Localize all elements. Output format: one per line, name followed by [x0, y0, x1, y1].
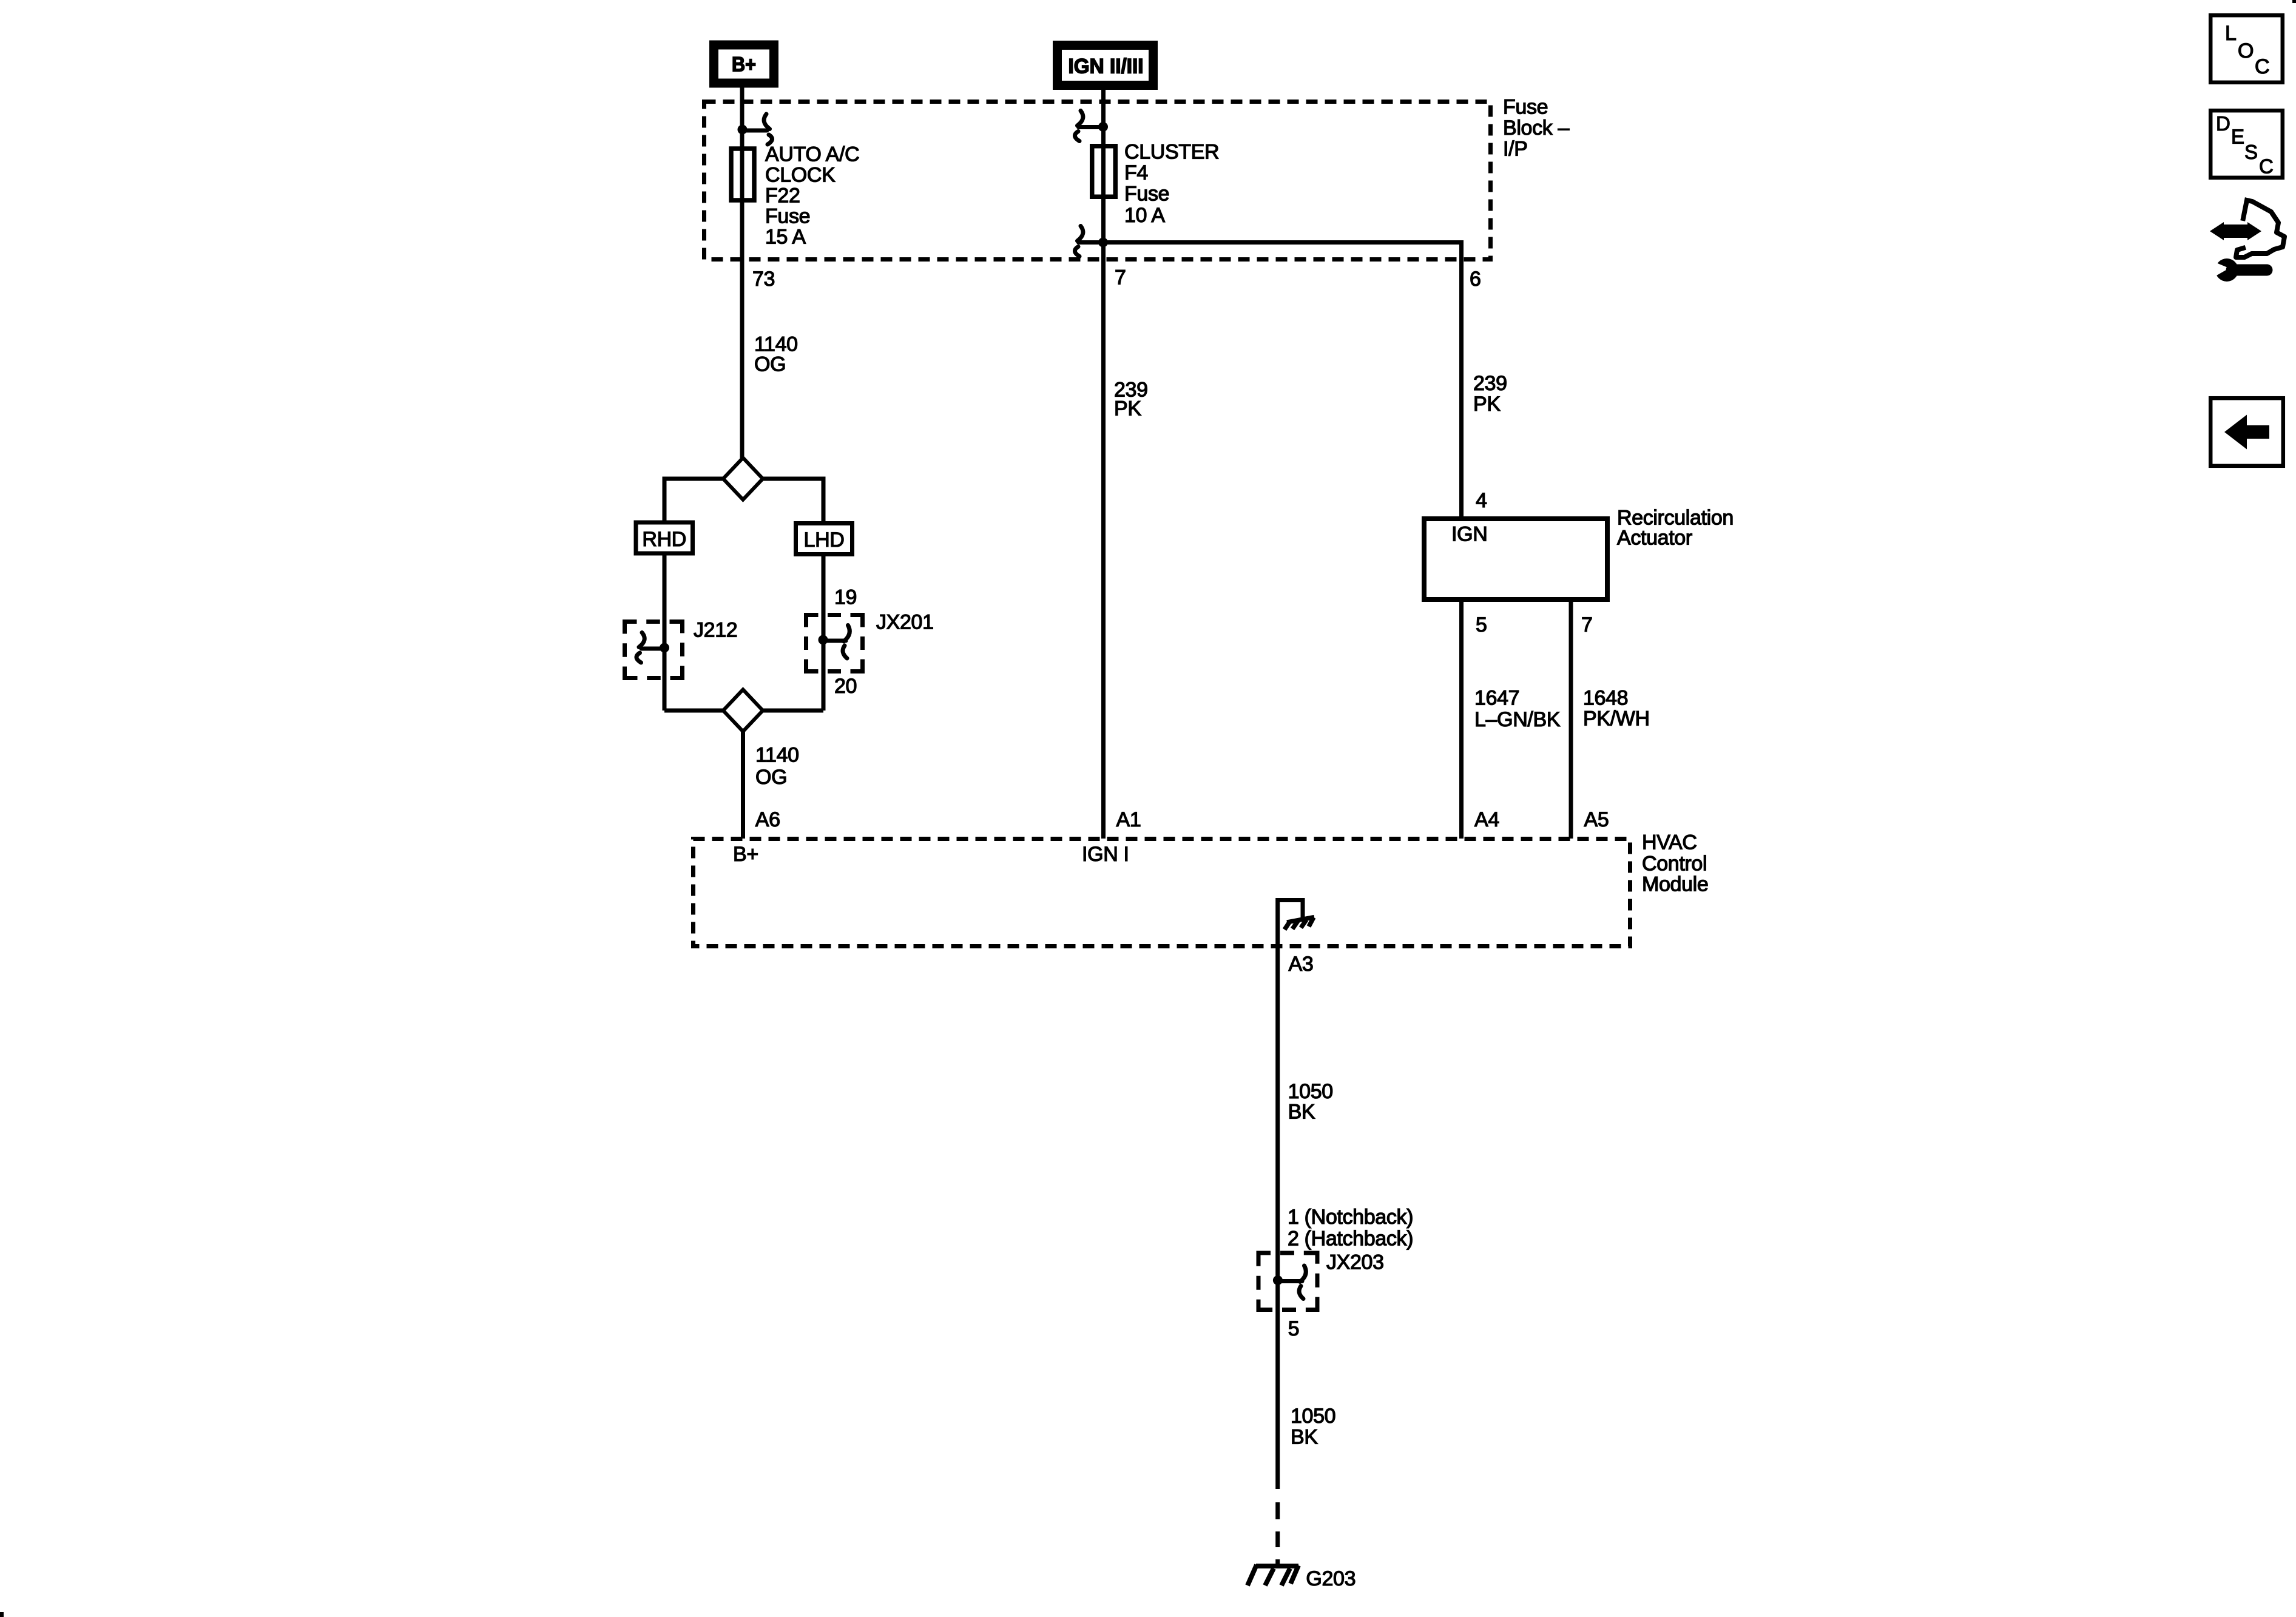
- svg-text:IGN I: IGN I: [1082, 843, 1129, 866]
- svg-text:L–GN/BK: L–GN/BK: [1474, 708, 1561, 731]
- svg-text:OG: OG: [755, 766, 787, 789]
- svg-text:PK: PK: [1114, 397, 1141, 420]
- svg-text:Module: Module: [1642, 873, 1708, 896]
- svg-text:B+: B+: [733, 843, 758, 866]
- svg-text:S: S: [2244, 141, 2258, 163]
- svg-text:15 A: 15 A: [765, 226, 806, 249]
- svg-text:Fuse: Fuse: [765, 205, 810, 228]
- svg-text:A1: A1: [1116, 808, 1141, 831]
- svg-text:PK/WH: PK/WH: [1583, 707, 1650, 731]
- svg-text:Actuator: Actuator: [1617, 527, 1692, 550]
- svg-text:A3: A3: [1289, 953, 1314, 976]
- svg-text:O: O: [2238, 39, 2254, 62]
- svg-text:PK: PK: [1473, 393, 1501, 416]
- svg-text:Fuse: Fuse: [1503, 96, 1548, 119]
- svg-text:Fuse: Fuse: [1124, 183, 1169, 206]
- svg-text:L: L: [2225, 22, 2237, 45]
- svg-text:CLOCK: CLOCK: [765, 163, 836, 186]
- svg-text:CLUSTER: CLUSTER: [1124, 141, 1219, 164]
- svg-text:C: C: [2259, 155, 2274, 178]
- svg-text:4: 4: [1476, 489, 1487, 512]
- svg-text:D: D: [2216, 112, 2230, 135]
- svg-text:2 (Hatchback): 2 (Hatchback): [1288, 1227, 1413, 1251]
- svg-text:1648: 1648: [1583, 687, 1628, 710]
- svg-text:G203: G203: [1306, 1567, 1356, 1590]
- svg-text:5: 5: [1476, 613, 1487, 636]
- svg-text:IGN: IGN: [1451, 523, 1487, 546]
- svg-text:BK: BK: [1288, 1101, 1315, 1124]
- svg-text:239: 239: [1473, 372, 1507, 395]
- svg-text:E: E: [2231, 126, 2244, 148]
- svg-text:IGN II/III: IGN II/III: [1069, 55, 1144, 78]
- svg-text:1140: 1140: [755, 744, 799, 767]
- svg-text:BK: BK: [1291, 1426, 1318, 1449]
- svg-text:C: C: [2255, 55, 2269, 78]
- svg-text:A5: A5: [1584, 808, 1609, 831]
- svg-text:JX203: JX203: [1326, 1251, 1384, 1274]
- svg-text:73: 73: [752, 268, 775, 291]
- svg-text:20: 20: [834, 675, 857, 698]
- svg-text:19: 19: [834, 586, 857, 609]
- svg-text:JX201: JX201: [876, 611, 934, 634]
- svg-text:A6: A6: [755, 808, 780, 831]
- svg-text:B+: B+: [732, 53, 756, 76]
- svg-text:7: 7: [1581, 613, 1593, 636]
- svg-text:5: 5: [1288, 1317, 1300, 1340]
- svg-text:OG: OG: [754, 353, 786, 376]
- svg-text:F22: F22: [765, 184, 800, 208]
- svg-text:1647: 1647: [1474, 687, 1519, 710]
- svg-text:J212: J212: [694, 619, 737, 642]
- svg-text:Control: Control: [1642, 852, 1707, 876]
- svg-text:1050: 1050: [1288, 1080, 1333, 1103]
- svg-text:1 (Notchback): 1 (Notchback): [1288, 1206, 1413, 1229]
- svg-text:7: 7: [1115, 266, 1126, 289]
- svg-text:Block –: Block –: [1503, 116, 1569, 140]
- svg-text:HVAC: HVAC: [1642, 831, 1697, 854]
- svg-text:I/P: I/P: [1503, 138, 1528, 161]
- svg-text:6: 6: [1470, 268, 1481, 291]
- svg-text:F4: F4: [1124, 161, 1148, 184]
- svg-text:AUTO A/C: AUTO A/C: [765, 143, 859, 166]
- svg-text:LHD: LHD: [804, 528, 845, 552]
- svg-text:A4: A4: [1474, 808, 1499, 831]
- svg-text:10 A: 10 A: [1124, 204, 1165, 227]
- svg-text:1050: 1050: [1291, 1405, 1335, 1428]
- svg-text:RHD: RHD: [642, 528, 686, 551]
